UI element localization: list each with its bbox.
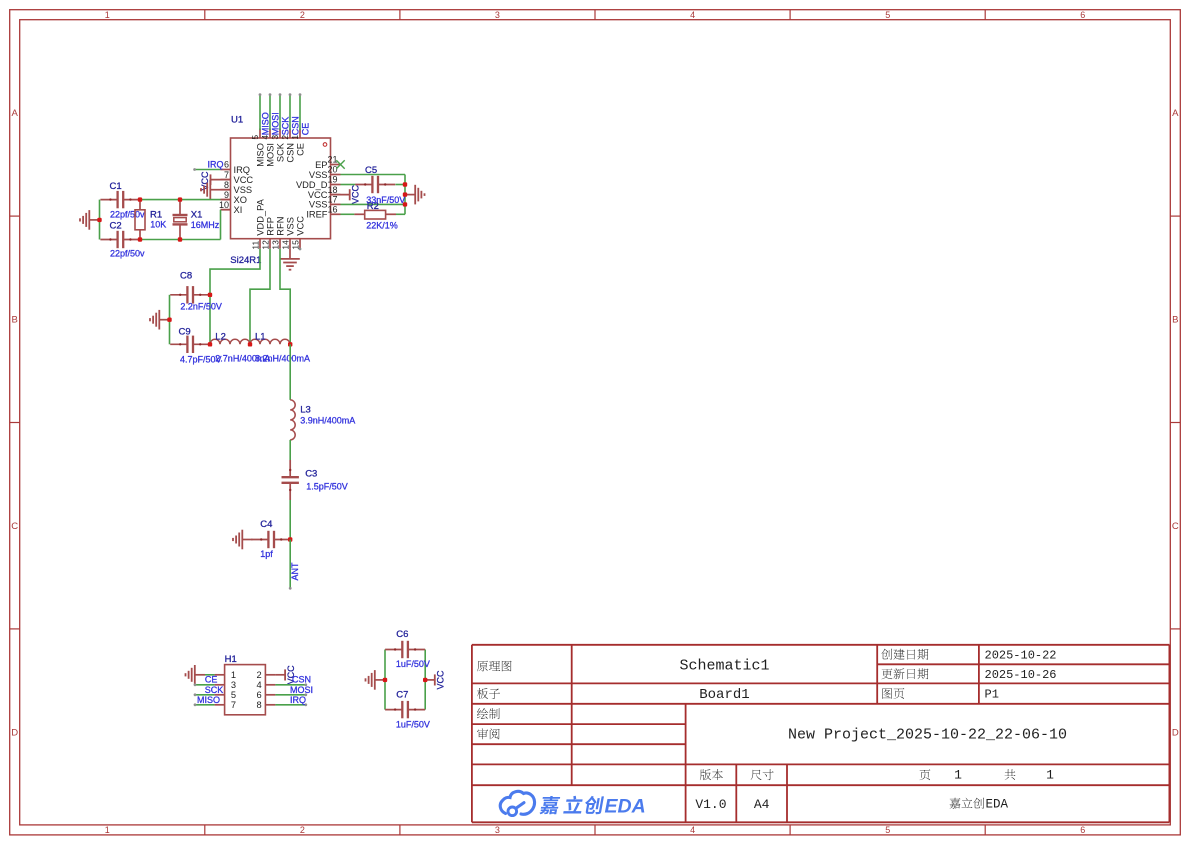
- svg-text:2025-10-26: 2025-10-26: [985, 668, 1057, 682]
- svg-text:1.5pF/50V: 1.5pF/50V: [306, 482, 348, 492]
- svg-text:1uF/50V: 1uF/50V: [396, 659, 430, 669]
- power flag VCC at U1 pin 18: [331, 184, 361, 204]
- junction dots right side: [403, 182, 407, 206]
- wire L3 to C3: [289, 440, 291, 460]
- svg-text:SCK: SCK: [275, 142, 285, 162]
- svg-text:C2: C2: [110, 221, 122, 232]
- svg-text:R2: R2: [367, 201, 379, 212]
- op-amp U1 Si24R1 RF transceiver IC body: [230, 115, 330, 267]
- svg-text:1: 1: [1046, 768, 1054, 783]
- svg-text:CE: CE: [205, 675, 218, 685]
- wire IRQ to U1 pin 6: [193, 168, 220, 171]
- svg-text:X1: X1: [191, 210, 203, 221]
- svg-text:9: 9: [224, 190, 229, 200]
- capacitor C1: [100, 181, 145, 220]
- title block text: version/size headers: [700, 768, 1054, 783]
- ground at C4: [233, 530, 253, 550]
- svg-text:CSN: CSN: [285, 143, 295, 163]
- U1 top pins 5-1 MISO MOSI SCK CSN CE: [250, 129, 305, 167]
- svg-text:MOSI: MOSI: [265, 143, 275, 167]
- svg-text:5: 5: [250, 135, 260, 140]
- title block text: board row: [477, 687, 999, 703]
- svg-text:C4: C4: [260, 519, 272, 530]
- svg-text:3: 3: [495, 10, 500, 20]
- svg-text:4: 4: [690, 10, 695, 20]
- svg-text:16: 16: [328, 205, 338, 215]
- svg-text:7: 7: [231, 700, 236, 710]
- svg-text:VCC: VCC: [436, 670, 446, 690]
- svg-text:D: D: [1172, 727, 1179, 738]
- ground at C6/C7: [366, 670, 386, 690]
- svg-text:MISO: MISO: [255, 143, 265, 167]
- svg-text:C5: C5: [365, 165, 377, 176]
- svg-text:VCC: VCC: [234, 175, 254, 185]
- H1 pins 1,3,5,7 (left): [215, 670, 236, 710]
- svg-text:Schematic1: Schematic1: [679, 658, 769, 675]
- svg-text:VSS: VSS: [309, 200, 328, 210]
- svg-text:P1: P1: [985, 688, 999, 702]
- svg-text:A: A: [12, 108, 19, 119]
- svg-text:5: 5: [885, 10, 890, 20]
- svg-text:22pf/50v: 22pf/50v: [110, 210, 145, 220]
- svg-text:22pf/50v: 22pf/50v: [110, 249, 145, 259]
- svg-text:16MHz: 16MHz: [191, 220, 220, 230]
- svg-text:7: 7: [224, 170, 229, 180]
- svg-text:L2: L2: [215, 332, 226, 343]
- svg-text:1: 1: [105, 825, 110, 835]
- ground at U1 pin 8: [201, 180, 231, 200]
- net label ANT: [290, 562, 300, 581]
- capacitor C9: [170, 327, 221, 365]
- svg-text:U1: U1: [231, 115, 243, 126]
- svg-text:3: 3: [495, 825, 500, 835]
- svg-text:VCC: VCC: [351, 184, 361, 204]
- svg-text:C8: C8: [180, 271, 192, 282]
- junction dot at C4/ANT: [288, 537, 292, 541]
- svg-text:8: 8: [224, 180, 229, 190]
- svg-text:IRQ: IRQ: [234, 165, 251, 175]
- wire MISO to H1 pin 7: [194, 695, 220, 706]
- svg-text:C: C: [1172, 521, 1179, 532]
- svg-text:19: 19: [328, 175, 338, 185]
- wire RFN pin 13 to L1 right node: [280, 249, 290, 345]
- svg-text:C3: C3: [305, 469, 317, 480]
- svg-text:10K: 10K: [150, 220, 166, 230]
- svg-text:6: 6: [1080, 10, 1085, 20]
- svg-text:10: 10: [219, 200, 229, 210]
- svg-text:L3: L3: [300, 405, 311, 416]
- wire IRQ to H1 pin 8: [275, 695, 307, 706]
- svg-text:6: 6: [224, 160, 229, 170]
- wire L1 node down to L3: [289, 344, 291, 400]
- svg-text:MOSI: MOSI: [290, 685, 313, 695]
- svg-text:XI: XI: [234, 205, 243, 215]
- title block table: [472, 645, 1170, 823]
- junction dots crystal circuit: [97, 197, 182, 241]
- wire and net label CE (U1 top): [299, 93, 311, 135]
- wire RFP pin 12 to L2/L1 node: [250, 249, 270, 345]
- svg-text:CSN: CSN: [292, 675, 311, 685]
- U1 bottom pins 11-15 VDD_PA RFP RFN VSS VCC: [250, 198, 305, 249]
- ground at U1 pin 14: [280, 249, 300, 270]
- title block text: sheet name: [477, 658, 770, 675]
- junction dots matching network: [167, 293, 292, 347]
- capacitor C6: [385, 629, 430, 669]
- svg-text:12: 12: [260, 240, 270, 250]
- wire and net label MOSI (U1 top): [269, 93, 281, 135]
- power flag VCC at C6/C7: [425, 670, 445, 690]
- svg-text:11: 11: [250, 241, 260, 250]
- inductor L2: [210, 332, 270, 364]
- ground at crystal circuit: [80, 210, 100, 230]
- wire C6/C7 right vertical: [424, 650, 426, 710]
- wire C3 to antenna node: [289, 500, 291, 540]
- svg-text:D: D: [11, 727, 18, 738]
- svg-text:IREF: IREF: [306, 210, 327, 220]
- capacitor C7: [385, 690, 430, 730]
- wire CE to H1 pin 3: [194, 675, 218, 687]
- svg-text:1: 1: [231, 670, 236, 680]
- svg-text:EP: EP: [315, 160, 327, 170]
- svg-text:18: 18: [328, 185, 338, 195]
- svg-text:IRQ: IRQ: [208, 159, 224, 169]
- wire U1 pin 17 VSS: [341, 203, 406, 205]
- U1 left pins 6-10 IRQ VCC VSS XO XI: [219, 160, 253, 215]
- ground right of C5: [405, 185, 425, 205]
- svg-text:4: 4: [257, 680, 262, 690]
- svg-text:3.9nH/400mA: 3.9nH/400mA: [300, 416, 355, 426]
- inductor L1: [250, 332, 310, 364]
- connector H1 body: [225, 654, 266, 715]
- svg-text:C7: C7: [396, 690, 408, 701]
- wire ANT stub: [289, 540, 292, 590]
- title block text: version/size values: [695, 797, 1008, 812]
- svg-text:14: 14: [280, 240, 290, 250]
- wire C8-C9 left vertical: [169, 295, 171, 345]
- capacitor C8: [170, 271, 222, 312]
- H1 pins 2,4,6,8 (right): [257, 670, 276, 710]
- svg-text:5: 5: [885, 825, 890, 835]
- svg-text:VDD_PA: VDD_PA: [255, 198, 265, 235]
- net label IRQ: [208, 159, 224, 169]
- svg-text:SCK: SCK: [205, 685, 224, 695]
- wire XI net (bottom of crystal circuit): [100, 200, 231, 240]
- svg-text:C1: C1: [110, 181, 122, 192]
- title block text: project name: [788, 727, 1067, 744]
- capacitor C2: [100, 221, 145, 259]
- svg-text:2: 2: [300, 10, 305, 20]
- wire SCK to H1 pin 5: [194, 685, 224, 696]
- capacitor C4: [251, 519, 291, 559]
- svg-text:1pf: 1pf: [260, 549, 273, 559]
- JLCEDA logo cloud icon: [500, 791, 534, 815]
- svg-text:CE: CE: [301, 123, 311, 136]
- svg-text:2: 2: [300, 825, 305, 835]
- ground at H1 pin 1: [186, 665, 215, 685]
- no-connect X on pin 21 EP: [336, 160, 344, 168]
- svg-text:1: 1: [105, 10, 110, 20]
- svg-text:VSS: VSS: [309, 170, 328, 180]
- svg-text:C9: C9: [179, 327, 191, 338]
- svg-text:A: A: [1172, 108, 1179, 119]
- svg-text:VSS: VSS: [285, 217, 295, 236]
- svg-text:17: 17: [328, 195, 338, 205]
- JLCEDA logo text: [539, 796, 645, 818]
- svg-text:RFN: RFN: [275, 217, 285, 236]
- svg-text:5: 5: [231, 690, 236, 700]
- svg-text:RFP: RFP: [265, 217, 275, 236]
- svg-text:VCC: VCC: [308, 190, 328, 200]
- svg-text:XO: XO: [234, 195, 247, 205]
- svg-text:V1.0: V1.0: [695, 797, 726, 812]
- svg-text:8.2nH/400mA: 8.2nH/400mA: [255, 354, 310, 364]
- U1 right pins 21-16 EP VSS VDD_D VCC VSS IREF: [296, 155, 341, 220]
- wire VDD_PA pin 11 to C8 node: [210, 249, 260, 345]
- svg-text:1uF/50V: 1uF/50V: [396, 720, 430, 730]
- svg-text:New Project_2025-10-22_22-06-1: New Project_2025-10-22_22-06-10: [788, 727, 1067, 744]
- svg-text:VCC: VCC: [295, 216, 305, 236]
- svg-text:ANT: ANT: [290, 562, 300, 581]
- power flag VCC at U1 pin 7: [200, 171, 231, 191]
- svg-text:B: B: [1172, 315, 1178, 326]
- svg-text:1: 1: [954, 768, 962, 783]
- wire and net label CSN (U1 top): [289, 93, 301, 135]
- wire C6/C7 left vertical: [384, 650, 386, 710]
- svg-text:C: C: [11, 521, 18, 532]
- junction dots C6/C7: [383, 678, 428, 682]
- title block text: updated date: [882, 668, 1057, 682]
- resistor R1: [135, 200, 166, 240]
- svg-text:6: 6: [257, 690, 262, 700]
- wire CSN to H1 pin 4: [275, 675, 311, 687]
- title block text: drawn by: [477, 708, 500, 719]
- wire and net label SCK (U1 top): [279, 93, 291, 135]
- svg-text:EDA: EDA: [605, 796, 646, 818]
- svg-text:20: 20: [328, 165, 338, 175]
- ground at C8/C9: [150, 310, 170, 330]
- svg-text:21: 21: [328, 155, 338, 165]
- inductor L3: [290, 400, 355, 440]
- svg-text:6: 6: [1080, 825, 1085, 835]
- title block text: created date: [881, 648, 1056, 662]
- svg-text:8: 8: [257, 700, 262, 710]
- svg-text:Si24R1: Si24R1: [230, 255, 261, 266]
- wire MOSI to H1 pin 6: [275, 685, 313, 696]
- svg-text:VDD_D: VDD_D: [296, 180, 328, 190]
- svg-text:2025-10-22: 2025-10-22: [985, 648, 1057, 662]
- svg-text:3: 3: [231, 680, 236, 690]
- svg-text:IRQ: IRQ: [290, 695, 306, 705]
- svg-text:C6: C6: [396, 629, 408, 640]
- svg-text:VSS: VSS: [234, 185, 253, 195]
- crystal X1: [173, 200, 220, 240]
- svg-text:MISO: MISO: [197, 695, 220, 705]
- svg-text:13: 13: [270, 240, 280, 250]
- svg-text:2: 2: [257, 670, 262, 680]
- resistor R2 on IREF: [341, 201, 406, 231]
- svg-text:22K/1%: 22K/1%: [366, 221, 398, 231]
- capacitor C5 on VDD_D: [341, 165, 406, 205]
- wire and net label MISO (U1 top): [259, 93, 271, 135]
- svg-text:EDA: EDA: [986, 798, 1009, 812]
- power flag VCC at H1 pin 2: [275, 665, 296, 685]
- svg-text:B: B: [12, 315, 18, 326]
- svg-text:Board1: Board1: [699, 687, 749, 703]
- title block text: reviewed by: [477, 728, 500, 739]
- svg-text:CE: CE: [295, 143, 305, 156]
- wire U1 pin 20 VSS: [341, 175, 406, 215]
- wire XO net (top of crystal circuit): [140, 199, 231, 201]
- svg-text:H1: H1: [225, 654, 237, 665]
- svg-text:2.2nF/50V: 2.2nF/50V: [180, 302, 222, 312]
- wire end dot pin 15: [299, 248, 302, 251]
- capacitor C3: [282, 460, 348, 500]
- svg-text:A4: A4: [754, 797, 770, 812]
- svg-text:L1: L1: [255, 332, 266, 343]
- svg-text:4: 4: [690, 825, 695, 835]
